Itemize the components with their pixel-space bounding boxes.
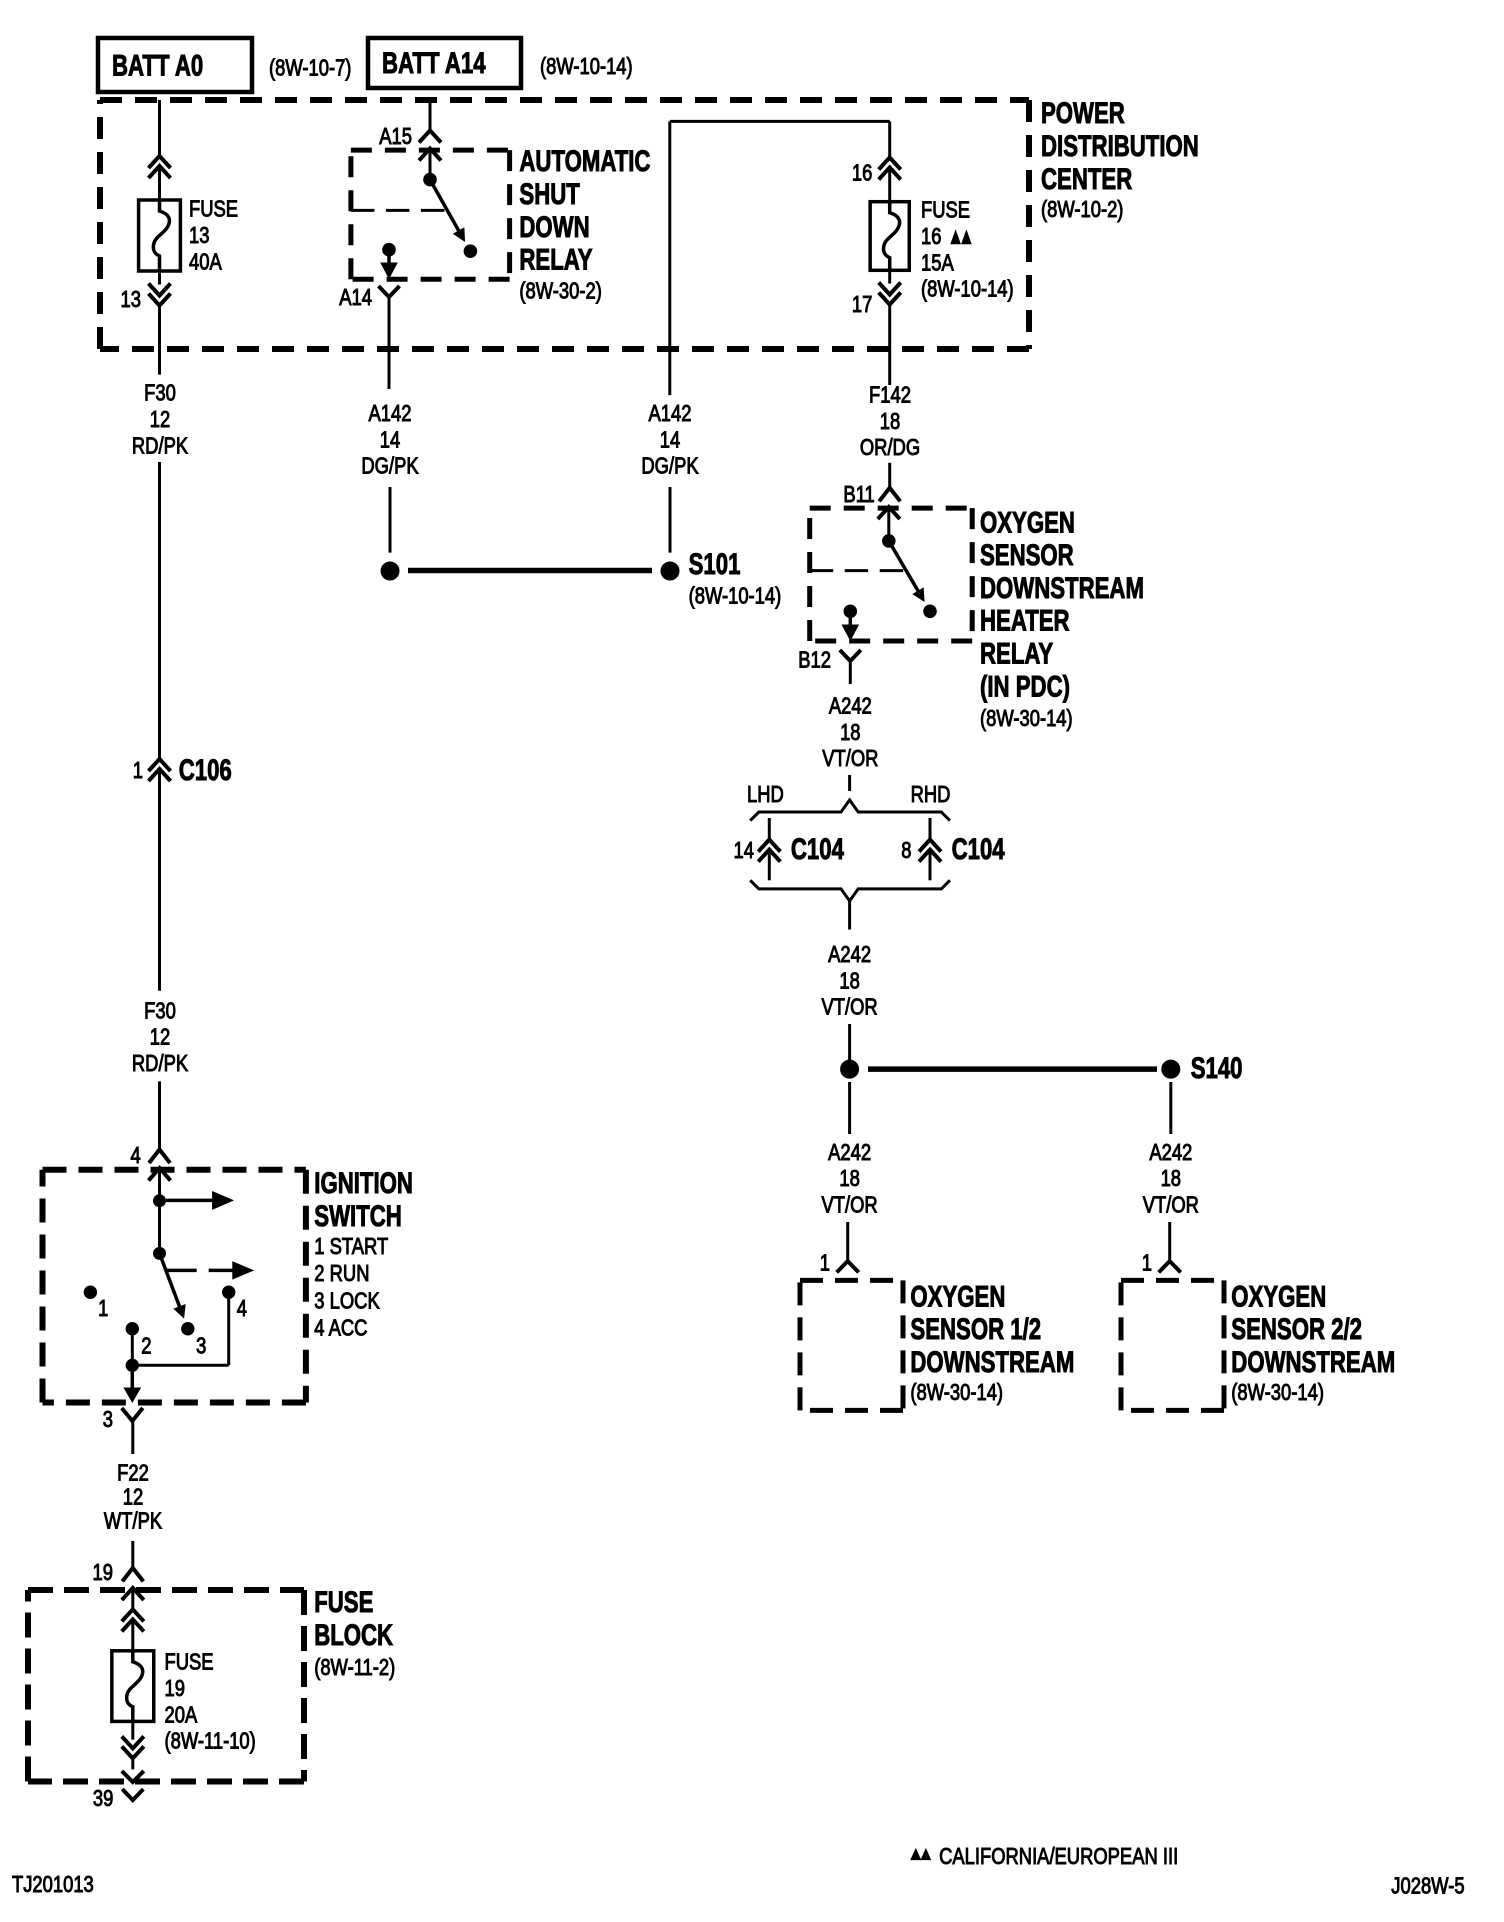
svg-text:FUSE: FUSE [189,197,238,222]
svg-text:CENTER: CENTER [1041,162,1132,196]
svg-text:OXYGEN: OXYGEN [910,1279,1005,1313]
svg-text:VT/OR: VT/OR [1143,1193,1199,1218]
svg-text:A14: A14 [339,285,372,310]
svg-text:12: 12 [150,1025,170,1050]
svg-text:1: 1 [98,1296,108,1321]
svg-text:18: 18 [839,1166,859,1191]
svg-text:12: 12 [123,1485,143,1510]
svg-text:19: 19 [165,1676,185,1701]
svg-text:DOWNSTREAM: DOWNSTREAM [980,571,1144,605]
svg-text:OXYGEN: OXYGEN [980,505,1075,539]
svg-text:DG/PK: DG/PK [641,454,698,479]
svg-text:2 RUN: 2 RUN [314,1261,369,1286]
svg-text:HEATER: HEATER [980,603,1070,637]
svg-text:1: 1 [820,1251,830,1276]
svg-text:(8W-10-7): (8W-10-7) [269,56,351,81]
svg-text:19: 19 [93,1560,113,1585]
svg-text:F142: F142 [869,383,911,408]
svg-text:RHD: RHD [911,782,951,807]
svg-text:40A: 40A [189,249,222,274]
svg-text:39: 39 [93,1786,113,1811]
svg-text:A15: A15 [379,124,412,149]
svg-text:16: 16 [921,224,941,249]
svg-text:18: 18 [1161,1166,1181,1191]
svg-text:13: 13 [189,223,209,248]
svg-text:12: 12 [150,407,170,432]
svg-text:S140: S140 [1191,1051,1243,1085]
svg-text:1: 1 [133,758,143,783]
svg-text:A142: A142 [369,401,412,426]
svg-text:3: 3 [196,1333,206,1358]
svg-text:CALIFORNIA/EUROPEAN III: CALIFORNIA/EUROPEAN III [939,1844,1178,1869]
svg-text:(8W-10-14): (8W-10-14) [540,54,633,79]
svg-text:17: 17 [852,292,872,317]
svg-text:BLOCK: BLOCK [314,1618,393,1652]
svg-text:C106: C106 [179,753,232,787]
svg-text:WT/PK: WT/PK [104,1509,162,1534]
svg-text:A242: A242 [829,694,872,719]
svg-text:(8W-30-14): (8W-30-14) [1231,1380,1324,1405]
svg-text:OR/DG: OR/DG [860,435,920,460]
svg-text:18: 18 [880,409,900,434]
svg-text:(8W-30-14): (8W-30-14) [980,706,1073,731]
svg-text:RELAY: RELAY [980,636,1054,670]
svg-text:(IN PDC): (IN PDC) [980,669,1070,703]
svg-text:VT/OR: VT/OR [822,1193,878,1218]
svg-text:TJ201013: TJ201013 [12,1872,94,1897]
svg-text:VT/OR: VT/OR [822,995,878,1020]
svg-text:C104: C104 [791,832,844,866]
svg-text:DISTRIBUTION: DISTRIBUTION [1041,129,1199,163]
svg-text:8: 8 [901,838,911,863]
svg-text:DG/PK: DG/PK [361,454,418,479]
svg-text:(8W-11-2): (8W-11-2) [314,1655,395,1680]
svg-text:4 ACC: 4 ACC [314,1316,367,1341]
svg-text:A242: A242 [828,942,871,967]
svg-text:LHD: LHD [747,782,784,807]
svg-text:BATT A14: BATT A14 [382,46,486,80]
svg-text:RD/PK: RD/PK [132,433,188,458]
svg-text:20A: 20A [165,1702,198,1727]
svg-text:SHUT: SHUT [519,177,579,211]
svg-text:15A: 15A [921,250,954,275]
svg-text:A242: A242 [1149,1140,1192,1165]
svg-text:A242: A242 [828,1140,871,1165]
svg-text:SWITCH: SWITCH [314,1199,402,1233]
svg-text:F22: F22 [117,1461,149,1486]
svg-text:B11: B11 [843,482,874,507]
svg-text:F30: F30 [144,381,176,406]
svg-text:DOWN: DOWN [519,210,589,244]
svg-text:14: 14 [734,838,754,863]
svg-text:C104: C104 [952,832,1005,866]
svg-text:DOWNSTREAM: DOWNSTREAM [910,1345,1074,1379]
svg-text:J028W-5: J028W-5 [1391,1874,1464,1899]
svg-text:3 LOCK: 3 LOCK [314,1288,380,1313]
svg-text:DOWNSTREAM: DOWNSTREAM [1231,1345,1395,1379]
svg-text:FUSE: FUSE [165,1650,214,1675]
svg-text:BATT A0: BATT A0 [112,48,203,82]
svg-text:VT/OR: VT/OR [822,746,878,771]
svg-text:IGNITION: IGNITION [314,1166,413,1200]
svg-text:F30: F30 [144,998,176,1023]
svg-text:POWER: POWER [1041,96,1125,130]
svg-text:B12: B12 [798,648,831,673]
svg-text:SENSOR: SENSOR [980,538,1074,572]
svg-text:(8W-10-2): (8W-10-2) [1041,197,1123,222]
svg-text:RELAY: RELAY [519,242,593,276]
svg-text:4: 4 [130,1143,140,1168]
svg-text:S101: S101 [689,547,741,581]
svg-text:18: 18 [839,968,859,993]
svg-text:(8W-30-14): (8W-30-14) [910,1380,1003,1405]
svg-text:AUTOMATIC: AUTOMATIC [519,144,650,178]
svg-text:SENSOR 2/2: SENSOR 2/2 [1231,1312,1362,1346]
svg-text:OXYGEN: OXYGEN [1231,1279,1326,1313]
svg-text:14: 14 [660,427,680,452]
svg-text:FUSE: FUSE [921,198,970,223]
svg-text:(8W-11-10): (8W-11-10) [165,1729,256,1754]
svg-text:RD/PK: RD/PK [132,1051,188,1076]
svg-text:16: 16 [852,161,872,186]
svg-text:(8W-10-14): (8W-10-14) [689,584,782,609]
svg-text:13: 13 [121,287,141,312]
svg-text:2: 2 [141,1333,151,1358]
svg-text:18: 18 [840,720,860,745]
svg-text:(8W-30-2): (8W-30-2) [519,279,601,304]
svg-text:SENSOR 1/2: SENSOR 1/2 [910,1312,1041,1346]
svg-text:14: 14 [380,427,400,452]
svg-text:(8W-10-14): (8W-10-14) [921,277,1014,302]
svg-text:3: 3 [103,1407,113,1432]
svg-text:1 START: 1 START [314,1234,388,1259]
svg-text:FUSE: FUSE [314,1585,373,1619]
svg-text:4: 4 [237,1296,247,1321]
svg-text:1: 1 [1142,1251,1152,1276]
svg-text:A142: A142 [649,401,692,426]
